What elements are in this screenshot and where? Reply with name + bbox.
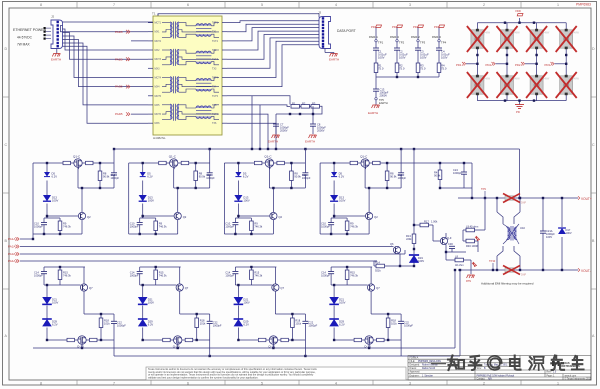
- svg-text:2000V: 2000V: [380, 94, 388, 98]
- svg-text:100V: 100V: [418, 259, 424, 263]
- svg-text:TP2: TP2: [399, 41, 405, 45]
- svg-text:100V: 100V: [420, 56, 427, 60]
- svg-text:J3: J3: [318, 11, 322, 15]
- svg-text:Q-9: Q-9: [447, 236, 452, 240]
- svg-text:PA1B: PA1B: [115, 30, 122, 34]
- svg-text:90.9k: 90.9k: [434, 174, 441, 178]
- svg-text:EARTH: EARTH: [329, 58, 339, 62]
- svg-text:TX2: TX2: [212, 49, 217, 52]
- svg-text:MX1: MX1: [155, 31, 161, 34]
- svg-text:C: C: [592, 143, 595, 147]
- svg-text:PA3A: PA3A: [8, 252, 15, 256]
- svg-text:44-57VDC: 44-57VDC: [17, 36, 33, 40]
- svg-text:75.0: 75.0: [399, 67, 405, 71]
- svg-text:FILE:: FILE:: [410, 361, 416, 363]
- svg-text:1: 1: [557, 381, 559, 385]
- svg-text:R17: R17: [424, 220, 429, 224]
- svg-text:TX5: TX5: [212, 104, 217, 107]
- svg-text:5: 5: [261, 381, 263, 385]
- svg-text:1: 1: [557, 3, 559, 7]
- svg-text:MCT5: MCT5: [155, 95, 162, 98]
- svg-text:DNP: DNP: [521, 202, 526, 205]
- svg-text:PA2B: PA2B: [115, 57, 122, 61]
- svg-text:EARTH: EARTH: [305, 140, 315, 144]
- svg-text:75.0: 75.0: [378, 67, 384, 71]
- svg-text:TX6: TX6: [212, 122, 217, 125]
- svg-text:PD: PD: [516, 110, 520, 114]
- svg-text:Rev:: Rev:: [547, 372, 552, 374]
- svg-text:MCT3: MCT3: [155, 58, 162, 61]
- svg-text:DNP: DNP: [521, 274, 526, 277]
- svg-text:921k: 921k: [375, 269, 381, 273]
- svg-text:2000V: 2000V: [317, 129, 325, 133]
- svg-text:TCT6: TCT6: [212, 113, 219, 116]
- svg-text:© Texas Instruments 2011: © Texas Instruments 2011: [565, 377, 592, 380]
- svg-text:40 ohm: 40 ohm: [455, 263, 464, 267]
- svg-text:MX6: MX6: [155, 122, 161, 125]
- svg-text:PD1: PD1: [371, 25, 377, 29]
- svg-text:TCT1: TCT1: [212, 22, 219, 25]
- svg-text:FORM A: FORM A: [410, 356, 419, 359]
- svg-text:4: 4: [335, 381, 337, 385]
- svg-text:TX3: TX3: [212, 67, 217, 70]
- svg-text:1000pF: 1000pF: [453, 171, 462, 175]
- svg-text:100V: 100V: [441, 56, 448, 60]
- svg-text:PA4B: PA4B: [115, 112, 122, 116]
- svg-text:PD1: PD1: [456, 63, 462, 67]
- svg-text:TCT4: TCT4: [212, 77, 219, 80]
- svg-text:PMP6983 PoE 10W Isolated Flyba: PMP6983 PoE 10W Isolated Flyback: [477, 374, 516, 377]
- svg-text:TX1: TX1: [212, 31, 217, 34]
- svg-text:PA1A: PA1A: [8, 237, 15, 241]
- svg-text:J. Strecker: J. Strecker: [422, 374, 433, 377]
- svg-text:MCT1: MCT1: [155, 22, 162, 25]
- svg-text:Page: 1: Page: 1: [547, 375, 556, 377]
- svg-text:Designed:: Designed:: [410, 365, 421, 367]
- svg-text:U10: U10: [520, 226, 525, 230]
- svg-text:Drawn:: Drawn:: [410, 367, 418, 370]
- svg-text:100V: 100V: [399, 56, 406, 60]
- svg-text:TX4: TX4: [212, 86, 217, 89]
- svg-text:R14: R14: [375, 261, 380, 265]
- svg-text:TP1: TP1: [378, 41, 384, 45]
- svg-text:MCT4: MCT4: [155, 77, 162, 80]
- svg-text:L9 40 ohm: L9 40 ohm: [466, 225, 478, 229]
- svg-text:EARTH: EARTH: [268, 140, 278, 144]
- svg-text:2: 2: [483, 381, 485, 385]
- svg-text:EARTH: EARTH: [379, 101, 388, 105]
- svg-text:TP4: TP4: [441, 41, 447, 45]
- svg-text:PD3: PD3: [545, 63, 551, 67]
- svg-text:TP9: TP9: [481, 187, 486, 191]
- svg-text:TP10: TP10: [489, 259, 496, 263]
- svg-text:7: 7: [113, 381, 115, 385]
- svg-text:TCT2: TCT2: [212, 40, 219, 43]
- svg-text:www.ti.com: www.ti.com: [565, 374, 577, 377]
- svg-text:TCT5: TCT5: [212, 95, 219, 98]
- svg-text:D: D: [5, 47, 8, 51]
- svg-text:MX3: MX3: [155, 67, 161, 70]
- svg-text:PAIR-3: PAIR-3: [432, 35, 441, 39]
- svg-text:PA4A: PA4A: [8, 259, 15, 263]
- svg-text:6: 6: [187, 381, 189, 385]
- svg-text:PAIR-1: PAIR-1: [369, 35, 378, 39]
- svg-text:MX2: MX2: [155, 49, 161, 52]
- svg-text:MCT2: MCT2: [155, 40, 162, 43]
- svg-text:T1: T1: [152, 12, 156, 16]
- svg-text:75.0: 75.0: [420, 67, 426, 71]
- svg-text:PD2: PD2: [413, 25, 419, 29]
- svg-text:100V: 100V: [378, 56, 385, 60]
- svg-text:PMP6983: PMP6983: [576, 3, 591, 7]
- svg-text:3: 3: [409, 3, 411, 7]
- svg-text:PD4: PD4: [486, 63, 492, 67]
- svg-text:8: 8: [40, 3, 42, 7]
- svg-text:75.0: 75.0: [441, 67, 447, 71]
- svg-text:EARTH: EARTH: [368, 111, 378, 115]
- svg-text:Additional EMI filtering may b: Additional EMI filtering may be required: [481, 282, 534, 286]
- svg-text:Approved:: Approved:: [410, 371, 421, 374]
- svg-text:PMP6983_REVA.DSN: PMP6983_REVA.DSN: [418, 360, 441, 363]
- svg-text:R3: R3: [312, 102, 316, 106]
- svg-text:8: 8: [40, 381, 42, 385]
- svg-text:PA3B: PA3B: [115, 85, 122, 89]
- svg-text:EARTH: EARTH: [51, 58, 61, 62]
- svg-text:J2: J2: [51, 15, 55, 19]
- svg-text:5: 5: [261, 3, 263, 7]
- svg-text:R46 100R: R46 100R: [466, 244, 478, 248]
- svg-text:Dalton Smith: Dalton Smith: [422, 367, 436, 370]
- svg-text:MCT6: MCT6: [155, 113, 162, 116]
- svg-text:N/A: N/A: [488, 377, 492, 380]
- svg-text:4: 4: [335, 3, 337, 7]
- svg-text:1.00k: 1.00k: [431, 220, 438, 224]
- svg-text:ETHERNET POWER: ETHERNET POWER: [13, 28, 46, 32]
- svg-text:7: 7: [113, 3, 115, 7]
- svg-text:TCT3: TCT3: [212, 58, 219, 61]
- svg-text:PAIR-4: PAIR-4: [390, 35, 399, 39]
- svg-text:VOUT-: VOUT-: [581, 269, 591, 273]
- svg-text:R1: R1: [292, 102, 296, 106]
- svg-text:RTN: RTN: [466, 280, 471, 283]
- svg-text:MX4: MX4: [155, 86, 161, 89]
- svg-text:DATA PORT: DATA PORT: [337, 29, 356, 33]
- svg-text:TP3: TP3: [420, 41, 426, 45]
- svg-text:7W MAX: 7W MAX: [17, 43, 30, 47]
- svg-text:6: 6: [187, 3, 189, 7]
- svg-text:D: D: [592, 47, 595, 51]
- svg-text:x00k: x00k: [406, 237, 412, 241]
- svg-text:C: C: [5, 143, 8, 147]
- svg-text:PD2: PD2: [515, 63, 521, 67]
- svg-text:MX5: MX5: [155, 104, 161, 107]
- svg-text:Contact:: Contact:: [477, 377, 486, 380]
- svg-text:PD3: PD3: [434, 25, 440, 29]
- svg-text:PD4: PD4: [392, 25, 398, 29]
- svg-text:C30: C30: [448, 242, 453, 246]
- svg-text:VDD: VDD: [515, 9, 521, 13]
- svg-text:3: 3: [409, 381, 411, 385]
- svg-text:H4082NL: H4082NL: [153, 136, 166, 140]
- svg-text:PA2A: PA2A: [8, 245, 15, 249]
- svg-text:validate and test your design: validate and test your design implementa…: [148, 376, 259, 379]
- svg-text:100V: 100V: [566, 231, 572, 235]
- svg-text:2: 2: [483, 3, 485, 7]
- svg-text:VOUT+: VOUT+: [581, 197, 592, 201]
- svg-text:Engineer:: Engineer:: [410, 374, 420, 377]
- svg-text:R2: R2: [302, 102, 306, 106]
- svg-text:PAIR-2: PAIR-2: [411, 35, 420, 39]
- svg-text:Q6: Q6: [390, 242, 394, 246]
- svg-text:Size:: Size:: [477, 368, 482, 370]
- svg-text:100V: 100V: [546, 235, 552, 239]
- svg-text:2000V: 2000V: [280, 129, 288, 133]
